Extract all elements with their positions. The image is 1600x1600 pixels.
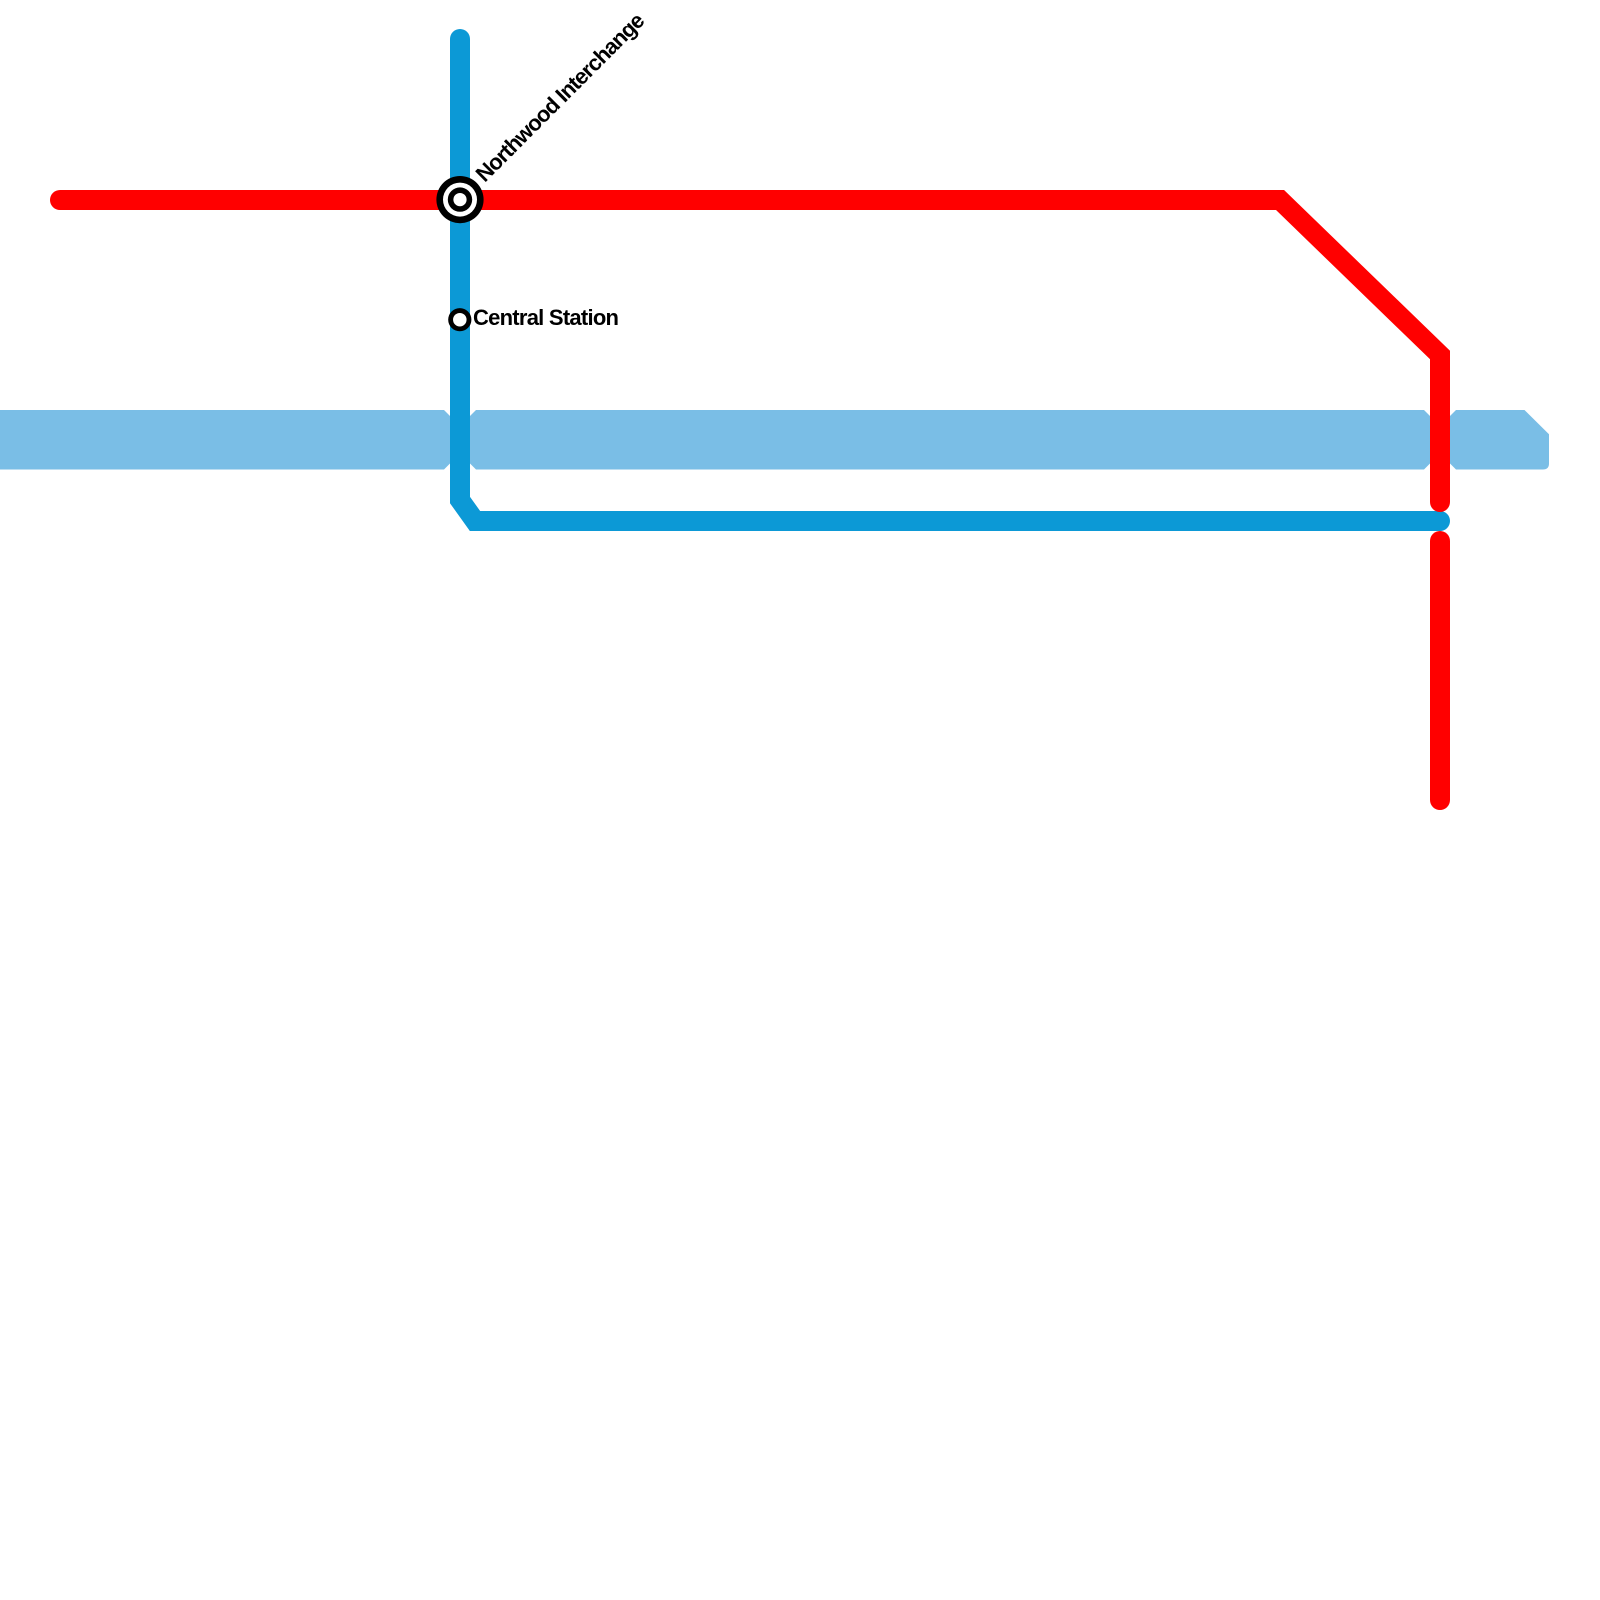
blue line: vertical trunk, 45-degree bend, lower horizontal run bbox=[460, 39, 1440, 521]
river segment middle (between blue line and red line) bbox=[470, 410, 1430, 470]
interchange station symbol (Northwood Interchange) bbox=[436, 176, 483, 223]
river segment east (right of red line, chamfered end) bbox=[1450, 410, 1549, 470]
station symbol (Central Station) bbox=[448, 308, 471, 331]
red line: upper horizontal run, 45-degree diagonal, vertical drop to blue crossing bbox=[60, 200, 1440, 502]
red line: lower vertical segment below blue crossing bbox=[1430, 541, 1450, 800]
river segment west (left of blue line) bbox=[0, 410, 450, 470]
svg-text:Central Station: Central Station bbox=[473, 305, 619, 330]
